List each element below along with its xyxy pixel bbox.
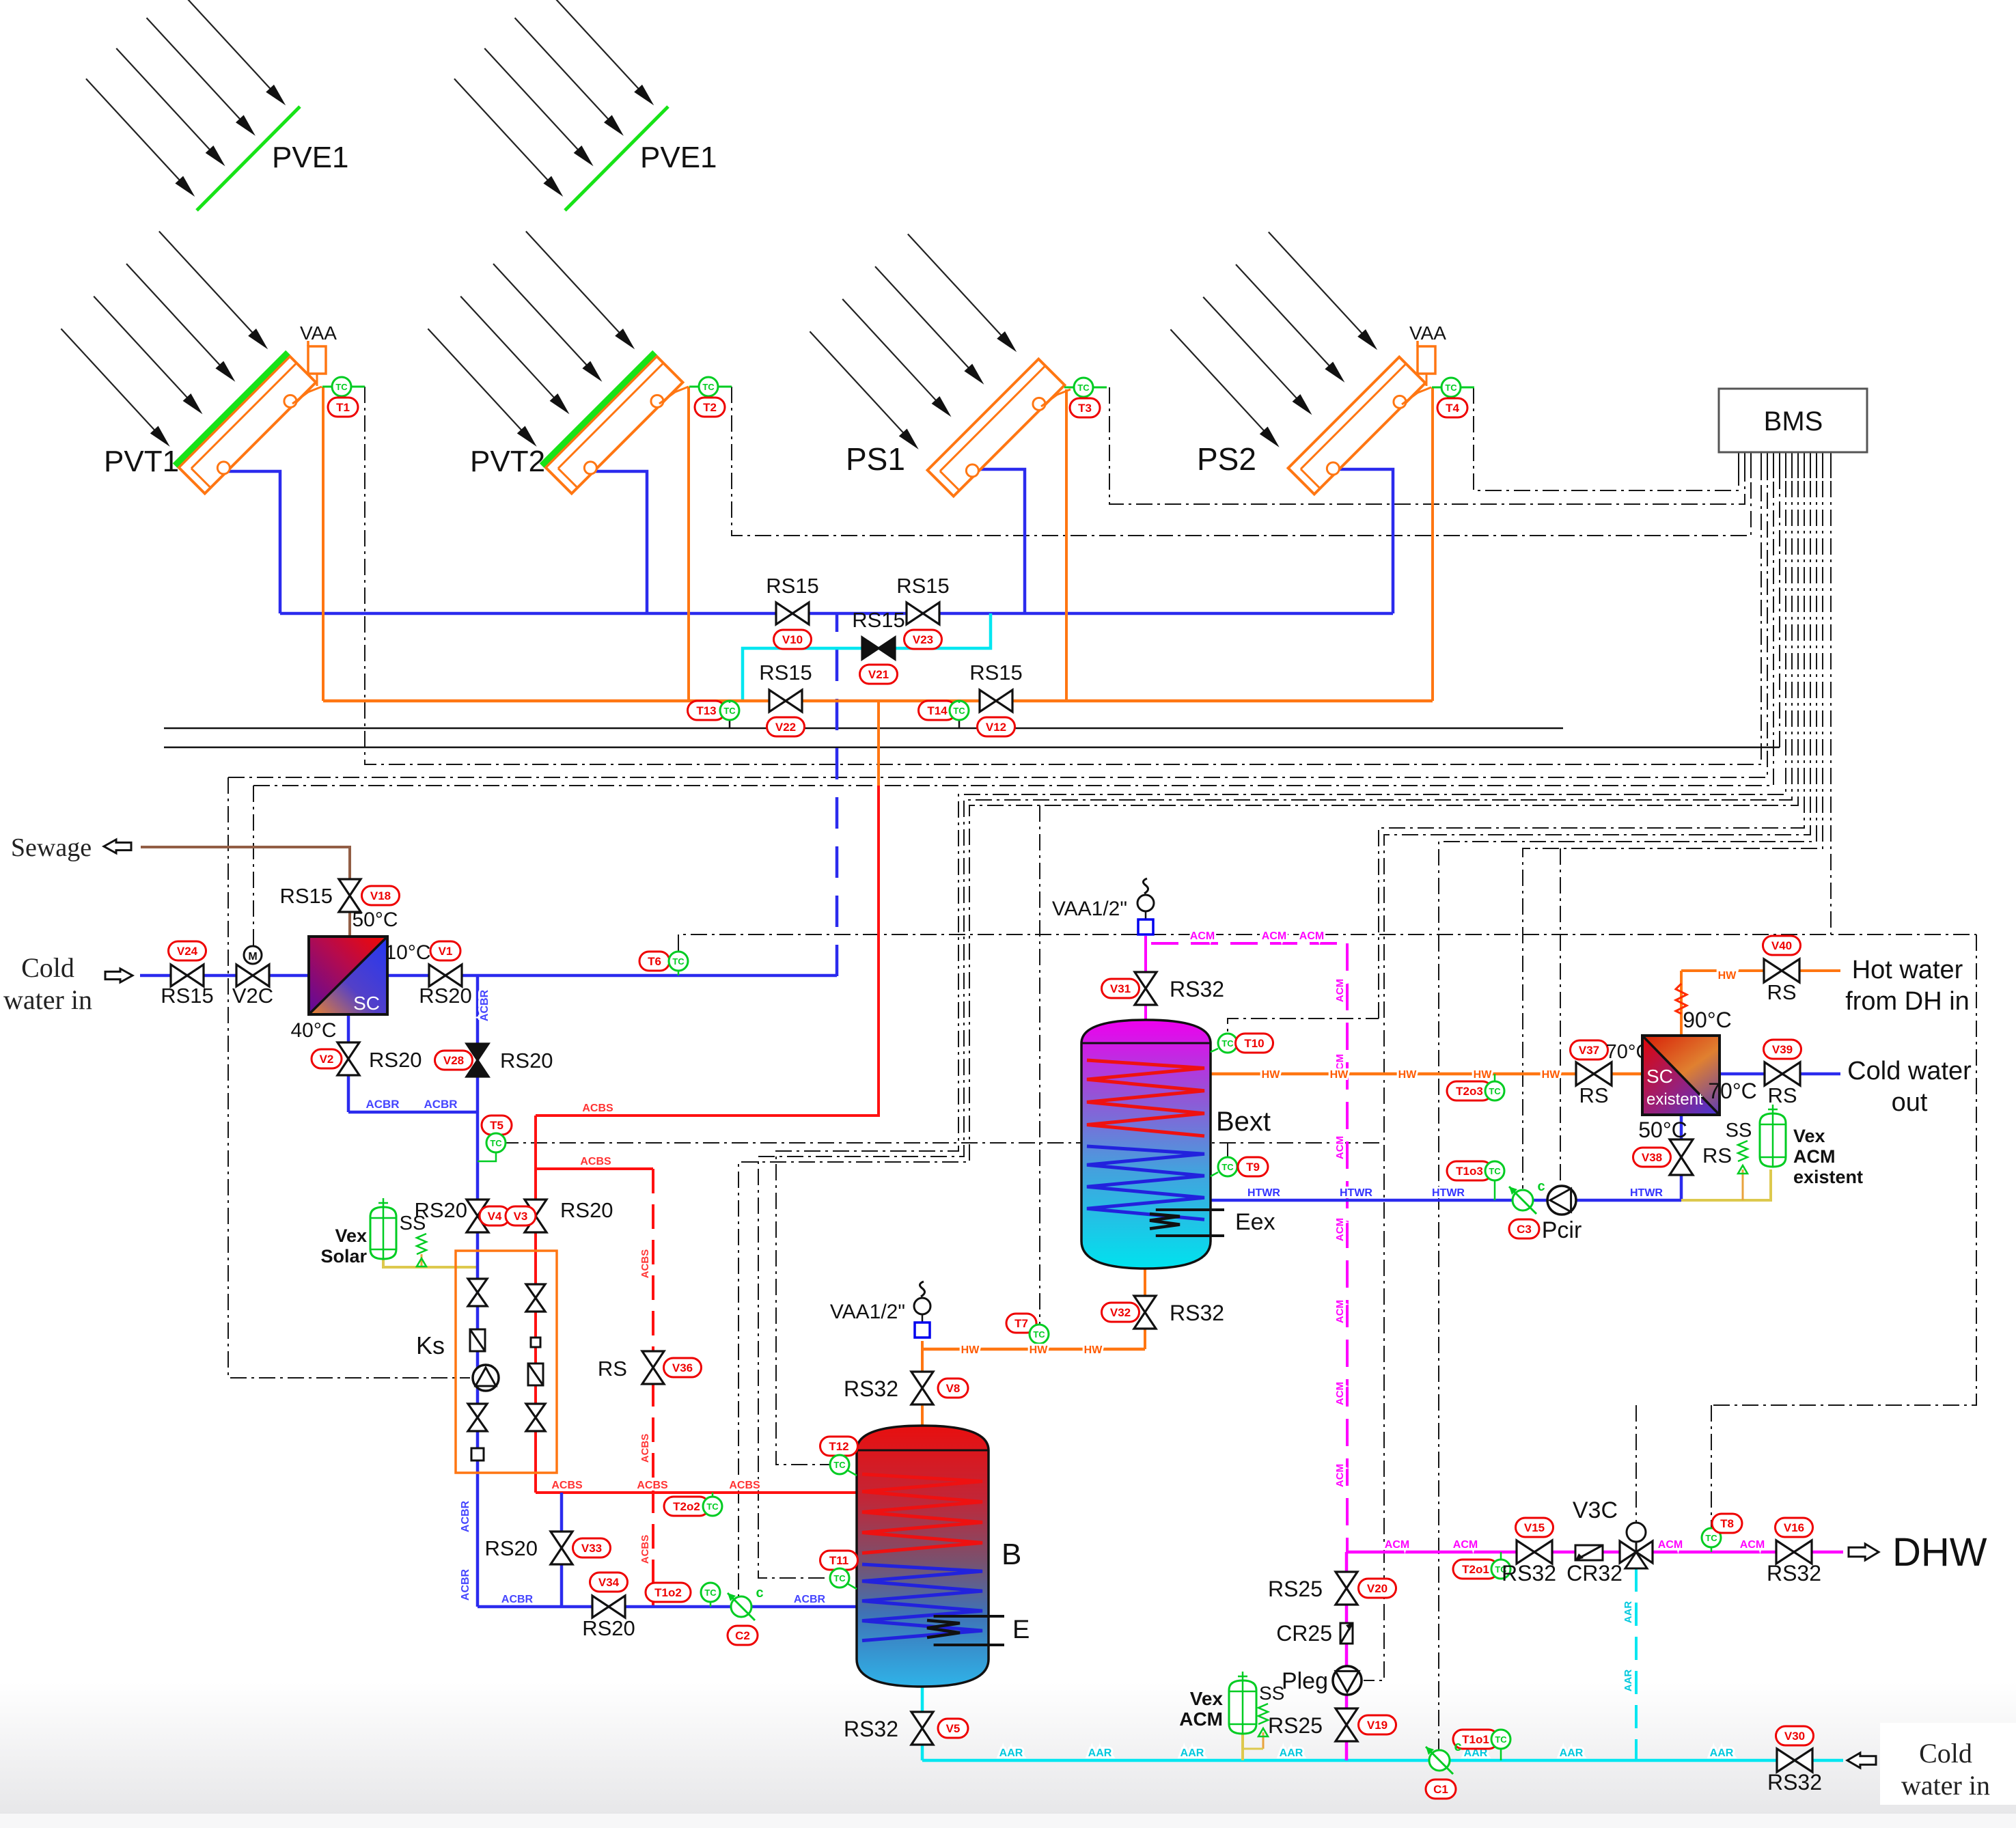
svg-text:RS20: RS20 [560, 1198, 613, 1222]
svg-text:RS15: RS15 [896, 574, 950, 598]
svg-text:HTWR: HTWR [1432, 1187, 1465, 1199]
svg-text:Vex: Vex [335, 1225, 367, 1246]
svg-text:V10: V10 [782, 633, 803, 646]
svg-text:VAA1/2": VAA1/2" [830, 1301, 905, 1323]
svg-text:ACM: ACM [1385, 1539, 1409, 1551]
svg-text:90°C: 90°C [1683, 1008, 1732, 1032]
svg-text:M: M [248, 951, 257, 963]
svg-text:V15: V15 [1524, 1521, 1545, 1534]
svg-text:RS: RS [1702, 1144, 1732, 1167]
svg-text:RS32: RS32 [1767, 1770, 1822, 1795]
svg-text:CR25: CR25 [1276, 1621, 1332, 1646]
svg-text:TC: TC [1221, 1162, 1234, 1172]
svg-text:V1: V1 [439, 945, 453, 958]
svg-text:AAR: AAR [1560, 1747, 1584, 1759]
svg-text:ACBR: ACBR [479, 989, 491, 1021]
svg-text:ACM: ACM [1190, 930, 1215, 942]
svg-text:Pleg: Pleg [1282, 1668, 1328, 1694]
svg-text:ACBS: ACBS [729, 1480, 760, 1491]
svg-text:TC: TC [1489, 1166, 1501, 1176]
svg-text:ACM: ACM [1179, 1708, 1223, 1730]
svg-text:TC: TC [1495, 1734, 1507, 1745]
svg-text:TC: TC [706, 1501, 719, 1512]
svg-text:HTWR: HTWR [1340, 1187, 1372, 1199]
svg-text:c: c [1454, 1739, 1461, 1754]
svg-text:RS15: RS15 [279, 884, 333, 908]
svg-text:ACM: ACM [1334, 1464, 1346, 1487]
svg-text:Hot water: Hot water [1852, 956, 1963, 984]
svg-text:V3C: V3C [1573, 1497, 1618, 1523]
svg-text:T12: T12 [829, 1440, 848, 1453]
svg-text:TC: TC [723, 706, 736, 716]
svg-text:T1: T1 [336, 401, 350, 414]
svg-text:ACBS: ACBS [639, 1249, 651, 1279]
svg-text:DHW: DHW [1892, 1530, 1987, 1575]
svg-text:HW: HW [1084, 1344, 1103, 1356]
svg-text:Bext: Bext [1216, 1107, 1271, 1137]
svg-text:T2o2: T2o2 [673, 1500, 700, 1513]
svg-text:V39: V39 [1772, 1043, 1793, 1056]
svg-text:ACBR: ACBR [460, 1500, 471, 1532]
svg-text:TC: TC [702, 382, 715, 392]
svg-text:V3: V3 [514, 1210, 528, 1223]
svg-text:CR32: CR32 [1566, 1561, 1623, 1585]
svg-text:existent: existent [1793, 1167, 1863, 1187]
svg-text:RS20: RS20 [582, 1616, 635, 1640]
svg-text:V5: V5 [946, 1722, 961, 1735]
svg-text:Pcir: Pcir [1542, 1217, 1582, 1243]
svg-text:ACBR: ACBR [460, 1568, 471, 1601]
svg-text:70°C: 70°C [1708, 1079, 1757, 1103]
svg-text:T11: T11 [829, 1554, 848, 1567]
svg-text:T14: T14 [927, 704, 948, 717]
svg-text:RS: RS [1767, 980, 1796, 1004]
svg-text:HTWR: HTWR [1630, 1187, 1663, 1199]
svg-text:ACBS: ACBS [580, 1156, 611, 1167]
svg-text:TC: TC [1489, 1086, 1501, 1096]
svg-text:from DH in: from DH in [1845, 987, 1970, 1016]
svg-text:VAA: VAA [300, 322, 337, 344]
svg-text:Ks: Ks [416, 1331, 445, 1359]
svg-text:RS15: RS15 [852, 608, 905, 632]
svg-text:ACM: ACM [1262, 930, 1286, 942]
svg-text:existent: existent [1646, 1090, 1703, 1109]
svg-text:V38: V38 [1642, 1151, 1662, 1164]
svg-text:Cold: Cold [21, 952, 74, 983]
svg-text:ACM: ACM [1793, 1146, 1836, 1167]
svg-text:RS20: RS20 [484, 1536, 538, 1560]
svg-text:T5: T5 [490, 1119, 503, 1132]
svg-text:C1: C1 [1433, 1783, 1448, 1796]
svg-text:40°C: 40°C [290, 1019, 336, 1042]
svg-text:V8: V8 [946, 1382, 961, 1395]
svg-text:TC: TC [1705, 1533, 1717, 1543]
svg-text:c: c [1537, 1179, 1545, 1194]
svg-text:ACBS: ACBS [639, 1434, 651, 1463]
svg-text:out: out [1892, 1088, 1928, 1117]
svg-text:ACM: ACM [1740, 1539, 1765, 1551]
svg-text:V22: V22 [775, 721, 796, 734]
svg-text:TC: TC [335, 382, 348, 392]
svg-text:ACBS: ACBS [582, 1103, 613, 1114]
svg-text:ACM: ACM [1453, 1539, 1478, 1551]
svg-text:PVT2: PVT2 [470, 445, 545, 478]
svg-text:ACBR: ACBR [365, 1098, 399, 1111]
svg-text:AAR: AAR [1710, 1747, 1734, 1759]
svg-text:T2: T2 [703, 401, 717, 414]
svg-text:V20: V20 [1367, 1582, 1387, 1595]
svg-text:TC: TC [1077, 383, 1090, 393]
svg-text:HW: HW [1474, 1069, 1493, 1081]
svg-text:V16: V16 [1784, 1521, 1804, 1534]
svg-text:RS32: RS32 [1767, 1561, 1821, 1585]
svg-text:RS: RS [1579, 1083, 1608, 1107]
svg-text:V33: V33 [581, 1542, 602, 1555]
svg-text:HW: HW [961, 1344, 980, 1356]
svg-text:ACM: ACM [1334, 1218, 1346, 1241]
svg-text:T1o3: T1o3 [1456, 1165, 1483, 1178]
svg-text:V2C: V2C [232, 984, 273, 1008]
svg-text:T8: T8 [1720, 1517, 1734, 1530]
svg-text:ACM: ACM [1334, 1300, 1346, 1323]
svg-text:T2o3: T2o3 [1456, 1085, 1483, 1098]
svg-text:AAR: AAR [1623, 1601, 1634, 1624]
svg-text:V40: V40 [1771, 939, 1792, 952]
svg-text:T9: T9 [1246, 1161, 1260, 1174]
svg-text:V24: V24 [177, 945, 198, 958]
svg-text:V23: V23 [913, 633, 933, 646]
svg-text:T4: T4 [1446, 402, 1459, 415]
svg-text:ACM: ACM [1334, 979, 1346, 1002]
svg-text:water in: water in [3, 984, 92, 1015]
svg-text:AAR: AAR [999, 1747, 1023, 1759]
svg-text:RS25: RS25 [1268, 1577, 1323, 1601]
svg-text:HW: HW [1330, 1069, 1349, 1081]
svg-text:TC: TC [833, 1460, 846, 1470]
svg-text:Cold: Cold [1919, 1738, 1972, 1769]
svg-text:RS: RS [598, 1357, 627, 1381]
svg-text:T10: T10 [1244, 1037, 1264, 1050]
svg-text:ACBS: ACBS [551, 1480, 583, 1491]
svg-text:ACM: ACM [1334, 1382, 1346, 1405]
svg-text:V34: V34 [598, 1576, 620, 1589]
svg-text:AAR: AAR [1280, 1747, 1303, 1759]
svg-text:Eex: Eex [1235, 1209, 1275, 1235]
svg-text:water in: water in [1901, 1770, 1990, 1801]
svg-text:V30: V30 [1784, 1730, 1805, 1743]
svg-text:V32: V32 [1110, 1306, 1131, 1319]
svg-text:RS32: RS32 [844, 1376, 898, 1401]
svg-text:TC: TC [1033, 1329, 1045, 1340]
svg-text:HW: HW [1030, 1344, 1049, 1356]
svg-text:T3: T3 [1078, 402, 1092, 415]
svg-text:RS32: RS32 [844, 1717, 898, 1741]
svg-text:RS15: RS15 [969, 661, 1023, 684]
svg-text:T6: T6 [648, 955, 661, 968]
svg-text:RS20: RS20 [414, 1198, 467, 1222]
svg-text:AAR: AAR [1088, 1747, 1112, 1759]
svg-text:TC: TC [704, 1588, 717, 1598]
svg-text:ACBR: ACBR [794, 1594, 826, 1605]
svg-text:RS32: RS32 [1170, 1301, 1224, 1325]
svg-text:Solar: Solar [320, 1246, 367, 1266]
svg-text:T7: T7 [1014, 1317, 1028, 1330]
svg-text:Vex: Vex [1793, 1126, 1825, 1146]
svg-text:V28: V28 [443, 1054, 464, 1067]
svg-text:V18: V18 [370, 889, 391, 902]
svg-text:T13: T13 [696, 704, 716, 717]
svg-text:V19: V19 [1367, 1719, 1387, 1732]
svg-text:B: B [1002, 1538, 1021, 1571]
svg-text:RS20: RS20 [500, 1049, 553, 1072]
svg-text:RS15: RS15 [161, 984, 214, 1008]
svg-text:ACM: ACM [1334, 1136, 1346, 1159]
svg-text:T2o1: T2o1 [1462, 1563, 1489, 1576]
svg-text:SC: SC [353, 993, 380, 1014]
svg-text:E: E [1012, 1616, 1030, 1644]
svg-text:PVE1: PVE1 [272, 141, 349, 174]
svg-text:c: c [756, 1585, 763, 1601]
svg-text:HW: HW [1398, 1069, 1418, 1081]
svg-text:RS15: RS15 [759, 661, 812, 684]
svg-text:V36: V36 [672, 1361, 693, 1374]
svg-text:ACBR: ACBR [424, 1098, 457, 1111]
svg-text:ACBS: ACBS [639, 1535, 651, 1564]
svg-text:V37: V37 [1579, 1044, 1599, 1057]
svg-text:SS: SS [1726, 1120, 1752, 1141]
svg-text:C2: C2 [735, 1629, 750, 1642]
svg-text:HTWR: HTWR [1247, 1187, 1280, 1199]
svg-text:PVE1: PVE1 [640, 141, 717, 174]
svg-text:Sewage: Sewage [11, 833, 92, 862]
svg-text:ACBR: ACBR [501, 1594, 534, 1605]
svg-text:VAA: VAA [1409, 322, 1446, 344]
svg-text:RS: RS [1767, 1083, 1797, 1107]
svg-text:V2: V2 [320, 1053, 334, 1066]
svg-text:SS: SS [1259, 1682, 1284, 1704]
svg-text:Vex: Vex [1190, 1688, 1224, 1709]
svg-text:TC: TC [672, 956, 685, 967]
svg-text:RS32: RS32 [1502, 1561, 1556, 1585]
svg-text:V31: V31 [1110, 982, 1131, 995]
svg-text:TC: TC [953, 706, 965, 716]
svg-text:HW: HW [1542, 1069, 1561, 1081]
svg-text:BMS: BMS [1764, 406, 1823, 437]
svg-text:RS25: RS25 [1268, 1713, 1323, 1738]
svg-text:ACM: ACM [1299, 930, 1324, 942]
svg-text:PVT1: PVT1 [104, 445, 179, 478]
svg-text:SC: SC [1646, 1066, 1673, 1087]
svg-text:V21: V21 [868, 668, 889, 681]
svg-text:VAA1/2": VAA1/2" [1052, 898, 1127, 920]
svg-text:TC: TC [490, 1138, 502, 1148]
svg-text:V12: V12 [986, 721, 1006, 734]
svg-text:ACBS: ACBS [637, 1480, 668, 1491]
svg-text:V4: V4 [488, 1210, 502, 1223]
svg-text:TC: TC [833, 1573, 846, 1583]
svg-text:50°C: 50°C [352, 909, 398, 931]
svg-text:AAR: AAR [1180, 1747, 1204, 1759]
svg-text:PS2: PS2 [1197, 441, 1256, 477]
svg-text:TC: TC [1445, 383, 1457, 393]
svg-text:Cold water: Cold water [1847, 1057, 1972, 1085]
svg-text:RS15: RS15 [766, 574, 819, 598]
svg-text:AAR: AAR [1623, 1670, 1634, 1692]
svg-text:RS20: RS20 [419, 984, 472, 1008]
svg-text:HW: HW [1262, 1069, 1281, 1081]
svg-text:T1o2: T1o2 [654, 1586, 682, 1599]
svg-text:RS32: RS32 [1170, 977, 1224, 1001]
svg-text:PS1: PS1 [846, 441, 905, 477]
svg-text:RS20: RS20 [369, 1048, 422, 1072]
svg-text:TC: TC [1221, 1038, 1234, 1049]
svg-text:T1o1: T1o1 [1462, 1733, 1489, 1746]
svg-text:C3: C3 [1517, 1223, 1532, 1236]
svg-text:10°C: 10°C [385, 941, 430, 964]
svg-text:ACM: ACM [1658, 1539, 1683, 1551]
svg-text:HW: HW [1718, 970, 1737, 982]
